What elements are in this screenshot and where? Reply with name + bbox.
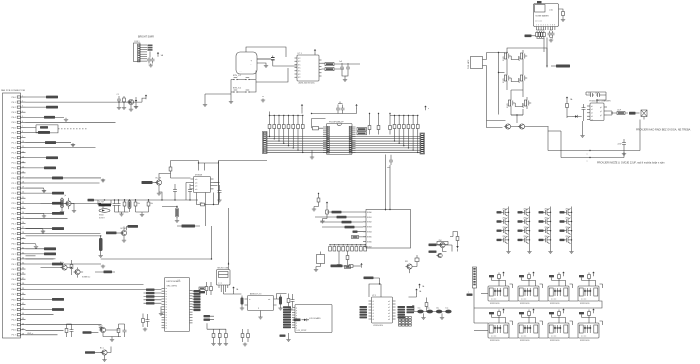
button BTN3 — [231, 90, 240, 93]
vcc arrow U3b — [355, 104, 357, 114]
vcc small right band — [424, 106, 429, 111]
svg-text:40: 40 — [22, 293, 24, 295]
wire J1 row11 long — [26, 147, 96, 149]
svg-text:o6: o6 — [388, 319, 390, 321]
wire from J1 pin 43 — [26, 309, 53, 311]
capacitor Cchg1 — [582, 104, 586, 121]
svg-text:p: p — [296, 315, 297, 317]
mosfet pair Q14 Q15 — [507, 97, 531, 109]
resistor stair — [320, 208, 328, 224]
wire vertical x228 to usb — [228, 208, 230, 265]
svg-text:5: 5 — [22, 116, 23, 118]
svg-text:MICRO USB: MICRO USB — [218, 268, 229, 270]
svg-text:u: u — [428, 108, 429, 110]
grounds row bottom — [211, 342, 228, 346]
svg-text:SOME Dx:: SOME Dx: — [82, 277, 91, 279]
grid column wire 4 — [571, 207, 572, 251]
svg-text:io: io — [166, 309, 167, 311]
wire under mosfets — [487, 121, 549, 128]
speaker block row2 col2 parts — [519, 309, 543, 326]
staircase pill 1 — [327, 211, 363, 214]
wire U5 net — [171, 178, 220, 200]
ground M1 right — [561, 18, 565, 22]
module M1 pins — [536, 25, 555, 31]
speaker block U10 — [518, 323, 539, 342]
pill stack ESP right — [194, 290, 201, 311]
usb module J3 — [217, 268, 231, 286]
svg-text:o o o o: o o o o — [491, 336, 496, 338]
label pill Q5 — [142, 181, 157, 184]
wire K gnd drop — [337, 251, 341, 267]
usb pins — [219, 285, 228, 288]
wire J1 row36-40 to ESP — [26, 284, 144, 289]
svg-text:SPKR MOD: SPKR MOD — [490, 303, 500, 305]
svg-text:io: io — [166, 314, 167, 316]
transistor grid Q29 — [497, 236, 509, 244]
wire caps U3 top — [312, 102, 357, 119]
ground U7 — [258, 311, 262, 320]
svg-text:SPKR MOD: SPKR MOD — [580, 303, 590, 305]
speaker block row1 col4 parts — [579, 272, 603, 289]
wire ESP right pills — [193, 291, 194, 310]
module U6 ESP32 board — [162, 278, 193, 332]
ground below M1 — [549, 39, 553, 43]
svg-text:BTN_S.1: BTN_S.1 — [233, 75, 242, 77]
resistor RN pill 2 — [325, 68, 334, 71]
svg-text:p: p — [296, 317, 297, 319]
inductor L1 — [99, 202, 112, 207]
svg-text:12: 12 — [22, 151, 24, 153]
mosfet pair Q12 Q13 — [503, 72, 527, 84]
transistor Q20 — [99, 325, 106, 333]
component right of U9 — [425, 298, 428, 313]
row 1 bus wire — [481, 293, 488, 295]
capacitor C5 — [339, 61, 344, 73]
svg-text:17: 17 — [22, 177, 24, 179]
wire from J1 pin 15 — [26, 167, 45, 169]
svg-text:o o o o: o o o o — [581, 299, 586, 301]
svg-text:SGN4: SGN4 — [367, 232, 372, 234]
svg-text:SPKR MOD: SPKR MOD — [520, 340, 530, 342]
capacitor C1 — [117, 94, 122, 110]
svg-text:io: io — [166, 288, 167, 290]
vcc arrow CON1 — [157, 52, 164, 57]
svg-text:S1499: S1499 — [519, 78, 521, 83]
wire U4 top — [596, 95, 606, 103]
svg-text:5: 5 — [545, 25, 546, 27]
svg-text:p: p — [296, 312, 297, 314]
svg-text:o o o o: o o o o — [521, 299, 526, 301]
ground pin 17 — [101, 178, 105, 182]
wire buzzer top — [246, 47, 286, 57]
svg-text:SPKR MOD: SPKR MOD — [490, 340, 500, 342]
vcc U9 right — [415, 289, 422, 294]
cap C41 — [119, 324, 127, 337]
wire M1 down — [544, 38, 547, 68]
svg-text:10u: 10u — [427, 308, 430, 310]
res left stair — [312, 193, 320, 211]
resistor Rb3 — [147, 199, 153, 209]
capacitor Cb1 — [113, 200, 117, 212]
svg-text:BC-TR: BC-TR — [156, 178, 162, 180]
wire boost drop — [205, 193, 207, 227]
svg-text:4.7uH: 4.7uH — [99, 202, 104, 204]
button BTN1 label — [233, 75, 242, 77]
svg-text:io: io — [166, 328, 167, 330]
resistor label pin 3 — [46, 106, 58, 109]
cap U7 out — [278, 295, 282, 311]
svg-text:BRIGHT SWIR: BRIGHT SWIR — [138, 36, 154, 39]
svg-text:u u u: u u u — [218, 283, 222, 285]
svg-text:PWR JACK: PWR JACK — [467, 59, 470, 69]
component D2 text — [99, 215, 105, 220]
ground supercaps — [421, 313, 444, 319]
transistor grid Q28 — [560, 227, 572, 235]
pill stack U9 left — [360, 306, 368, 318]
svg-text:SPKR MOD: SPKR MOD — [550, 303, 560, 305]
speaker block U11 — [548, 323, 569, 342]
capacitor cluster CON1 — [147, 58, 155, 64]
resistor label pin 32 — [44, 252, 56, 255]
wire R40 — [26, 324, 72, 331]
component V1 — [456, 232, 459, 252]
wire J1 pin2 to RC filter — [26, 101, 118, 103]
IC U3 microcontroller — [323, 121, 356, 155]
ground Cb6 — [162, 206, 179, 223]
svg-text:p: p — [296, 322, 297, 324]
ground U4 — [580, 121, 584, 138]
svg-text:a b: a b — [195, 189, 197, 191]
svg-text:46: 46 — [22, 323, 24, 325]
resistor pull2 — [377, 113, 380, 135]
staircase pill 2 — [315, 216, 363, 219]
svg-text:SGN1: SGN1 — [367, 217, 372, 219]
ground ESP — [159, 307, 163, 316]
transistor grid Q27 — [539, 227, 551, 235]
svg-text:21: 21 — [22, 197, 24, 199]
svg-text:44: 44 — [22, 313, 24, 315]
wire boost mid2 — [161, 195, 198, 201]
supercap row — [414, 308, 452, 314]
grid column wire 1 — [508, 207, 509, 251]
ecap C31 — [99, 238, 103, 251]
wire U2 right caps — [322, 63, 361, 69]
wire from J1 pin 31 — [26, 248, 45, 250]
svg-text:SGN0: SGN0 — [367, 212, 372, 214]
ecap Cb6 — [176, 207, 179, 220]
svg-text:o o o o: o o o o — [551, 336, 556, 338]
capacitor C10 below band — [387, 155, 393, 169]
vcc arrow chg — [566, 97, 573, 102]
module U10 small — [314, 252, 325, 272]
note text 2 — [597, 162, 665, 165]
wire CON1 cluster — [149, 52, 151, 58]
label pill power net — [523, 48, 570, 68]
svg-text:10u: 10u — [436, 308, 439, 310]
wire buzzer pins — [257, 59, 271, 64]
resistor Rb5 h — [198, 203, 207, 206]
svg-text:o o o o: o o o o — [551, 299, 556, 301]
svg-text:io: io — [166, 301, 167, 303]
resistor label pin 43 — [52, 308, 64, 311]
staircase pill 4 — [322, 226, 363, 229]
wire from J1 pin 3 — [26, 106, 47, 108]
svg-text:s s s s s s: s s s s s s — [535, 21, 542, 23]
wire J1 row45 — [26, 324, 102, 326]
svg-text:o5: o5 — [388, 316, 390, 318]
resistor pair usb — [205, 282, 212, 295]
annotation box K — [363, 210, 411, 249]
wire band left drop — [218, 162, 220, 205]
vcc arrow U3a — [301, 104, 303, 114]
resistor label pin 34 — [52, 263, 63, 266]
transistor grid Q19 — [539, 209, 551, 217]
capacitor C8 — [336, 105, 340, 114]
transistor grid Q25 — [497, 227, 509, 235]
svg-text:x2: x2 — [591, 113, 593, 115]
svg-text:S1499: S1499 — [523, 103, 525, 108]
svg-text:PIC16F628A-I/P: PIC16F628A-I/P — [329, 121, 344, 124]
speaker block row1 col1 parts — [489, 272, 513, 289]
svg-text:38: 38 — [22, 283, 24, 285]
svg-text:BC x: BC x — [99, 325, 103, 327]
button BTN4 — [243, 90, 252, 93]
diode D1 — [134, 97, 138, 109]
regulator U7 — [245, 293, 277, 311]
label pill boost out — [177, 225, 200, 228]
wire jack up — [487, 53, 506, 121]
svg-text:10k: 10k — [137, 203, 140, 205]
net loop row7 — [26, 125, 59, 133]
ground pin 10 — [71, 143, 75, 147]
transistor Q7 — [60, 262, 67, 270]
svg-text:3: 3 — [22, 106, 23, 108]
dashed wire row7 — [58, 128, 88, 130]
svg-text:24: 24 — [22, 212, 24, 214]
svg-text:u: u — [587, 154, 588, 156]
ground buzzer right — [264, 64, 268, 68]
IC U4 charger — [587, 100, 611, 122]
resistor label pin 17 — [52, 177, 63, 180]
bus lines center — [267, 137, 420, 153]
svg-text:16: 16 — [22, 172, 24, 174]
wire Q30 top — [415, 255, 419, 262]
svg-text:a b: a b — [195, 179, 197, 181]
svg-text:10: 10 — [22, 141, 24, 143]
capacitor Cb5 — [173, 184, 192, 195]
IC U2 body — [297, 53, 319, 85]
svg-text:9: 9 — [554, 25, 555, 27]
IC U2 pins left — [295, 58, 302, 79]
svg-text:y0: y0 — [600, 107, 602, 109]
svg-text:i6: i6 — [373, 319, 374, 321]
label LED dots — [587, 154, 588, 163]
wire from J1 pin 20 — [26, 192, 53, 194]
svg-text:PAK PCB CONNECTOR: PAK PCB CONNECTOR — [1, 89, 25, 92]
ground boost caps — [115, 212, 129, 216]
wire row44 net — [53, 314, 55, 316]
svg-text:GND_x: GND_x — [27, 333, 33, 335]
ground pin 34 — [101, 264, 105, 268]
resistor under K — [345, 251, 351, 269]
svg-text:42: 42 — [22, 303, 24, 305]
label pill +22B — [95, 271, 115, 274]
svg-text:BC x: BC x — [100, 348, 104, 350]
staircase pill 3 — [320, 221, 363, 224]
wire from J1 pin 13 — [26, 157, 47, 159]
cluster left ESP — [142, 314, 150, 332]
button BTN1 — [231, 78, 240, 81]
grid column wire 3 — [550, 207, 551, 251]
button BTN3 label — [233, 87, 242, 89]
parts under K — [352, 231, 367, 239]
svg-text:x4: x4 — [591, 119, 593, 121]
transistor grid Q22 — [518, 218, 530, 226]
resistor label pin 41 — [52, 298, 64, 301]
vcc arrow U2 — [314, 49, 316, 55]
svg-text:i5: i5 — [373, 316, 374, 318]
speaker block U5 — [488, 286, 509, 305]
connector J1 title — [1, 89, 25, 92]
vcc module — [418, 284, 425, 289]
capacitor pair below M1 — [548, 30, 555, 39]
svg-text:LCD BOARD: LCD BOARD — [309, 317, 321, 320]
wire J1 row6 long — [26, 121, 116, 123]
resistor network CON1 — [148, 45, 153, 51]
svg-text:20: 20 — [22, 192, 24, 194]
svg-text:a b: a b — [195, 182, 197, 184]
resistor label pin 8 — [38, 131, 50, 134]
svg-text:SPKR MOD: SPKR MOD — [520, 303, 530, 305]
ground accel caps — [343, 78, 347, 82]
svg-text:y1: y1 — [600, 111, 602, 113]
ground CON1 — [149, 64, 153, 68]
module M1 (NOISE MAKER) — [534, 1, 559, 27]
svg-text:NOISE MAKER: NOISE MAKER — [536, 15, 550, 18]
svg-text:PROVJERI AKO RADI BEZ OVOGA, N: PROVJERI AKO RADI BEZ OVOGA, NE TREBA — [636, 129, 691, 132]
svg-text:GHD_CHIP32: GHD_CHIP32 — [167, 286, 178, 288]
svg-text:i1: i1 — [373, 304, 374, 306]
label pill VIN — [88, 199, 99, 202]
button BTN2 — [243, 78, 252, 81]
wire vertical x211 — [211, 226, 212, 260]
junctions right row to bus — [394, 134, 419, 154]
svg-text:o 00x: o 00x — [549, 10, 553, 12]
svg-text:28: 28 — [22, 232, 24, 234]
svg-text:p: p — [296, 320, 297, 322]
svg-text:SGN6: SGN6 — [367, 242, 372, 244]
svg-text:SGN5: SGN5 — [367, 237, 372, 239]
resistor row bottom — [212, 329, 227, 342]
pill motor2 — [364, 277, 381, 285]
wire J1 row18 long — [26, 182, 100, 184]
capacitor C9 — [341, 105, 345, 114]
resistor row right — [393, 120, 419, 134]
IC U2 pins right — [319, 60, 322, 76]
svg-text:o1: o1 — [388, 304, 390, 306]
svg-text:io: io — [166, 317, 167, 319]
wire M1 right resistor — [559, 9, 565, 18]
resistor Rchg — [566, 101, 569, 118]
transistor grid Q21 — [497, 218, 509, 226]
svg-text:o0: o0 — [388, 301, 390, 303]
pill stack U9 right — [398, 306, 415, 318]
svg-text:u: u — [468, 292, 469, 294]
ground grid col 3 — [548, 250, 552, 254]
svg-text:io: io — [166, 320, 167, 322]
ground band left — [261, 96, 265, 102]
transistor grid Q18 — [518, 209, 530, 217]
resistor label pin 31 — [44, 247, 56, 250]
svg-text:o o o o: o o o o — [491, 299, 496, 301]
pill stack LCD left — [283, 306, 291, 328]
resistor network right pill2 — [357, 132, 367, 135]
wire from J1 pin 1 — [26, 96, 47, 98]
svg-text:i3: i3 — [373, 310, 374, 312]
svg-text:S1499: S1499 — [503, 78, 505, 83]
svg-text:p: p — [296, 307, 297, 309]
wire long bottom bus — [26, 258, 56, 260]
svg-text:48: 48 — [22, 333, 24, 335]
svg-text:x1: x1 — [591, 109, 593, 111]
label header blocks — [467, 292, 473, 296]
svg-text:2: 2 — [22, 101, 23, 103]
transistor grid Q30 — [518, 236, 530, 244]
ground grid col 1 — [506, 250, 510, 254]
svg-text:io: io — [166, 304, 167, 306]
svg-text:18: 18 — [22, 182, 24, 184]
svg-text:io: io — [166, 293, 167, 295]
capacitor Cb4 — [218, 185, 222, 199]
wire drop band to box — [386, 155, 391, 211]
svg-text:o3: o3 — [388, 310, 390, 312]
svg-text:p: p — [296, 325, 297, 327]
wire usb down — [221, 288, 225, 294]
svg-text:} b: } b — [64, 195, 66, 197]
svg-text:L293D/ULN: L293D/ULN — [373, 325, 384, 327]
ground Cb4 — [217, 199, 221, 203]
wire top boost — [171, 161, 205, 171]
svg-text:15: 15 — [22, 166, 24, 168]
IC U9 driver — [369, 295, 396, 327]
svg-text:o o o o: o o o o — [581, 336, 586, 338]
wire row bottom — [207, 323, 226, 329]
label pill Q9 — [106, 232, 122, 235]
wire C31 — [26, 235, 103, 257]
transistor grid Q23 — [539, 218, 551, 226]
wire cluster I2 — [41, 260, 84, 275]
svg-text:10k: 10k — [150, 203, 153, 205]
resistor Rb4 — [169, 161, 172, 179]
label pill M1 net — [525, 35, 536, 38]
cap U7 in — [240, 296, 244, 311]
capacitor Cout pill — [616, 110, 628, 115]
pill LED1 — [294, 318, 310, 321]
svg-text:37: 37 — [22, 278, 24, 280]
wire J1 row29 — [26, 244, 39, 249]
speaker block row2 col1 parts — [489, 309, 513, 326]
junctions left row to bus — [269, 134, 304, 154]
transistor grid Q24 — [560, 218, 572, 226]
capacitor C22 right — [618, 139, 627, 152]
svg-text:32: 32 — [22, 252, 24, 254]
bus wire bat+ — [548, 120, 640, 152]
svg-text:13: 13 — [22, 156, 24, 158]
header CON1 title — [138, 36, 154, 39]
svg-text:ADXL345 MODUL: ADXL345 MODUL — [299, 82, 316, 85]
vcc left row — [269, 112, 271, 116]
svg-text:4: 4 — [22, 111, 23, 113]
